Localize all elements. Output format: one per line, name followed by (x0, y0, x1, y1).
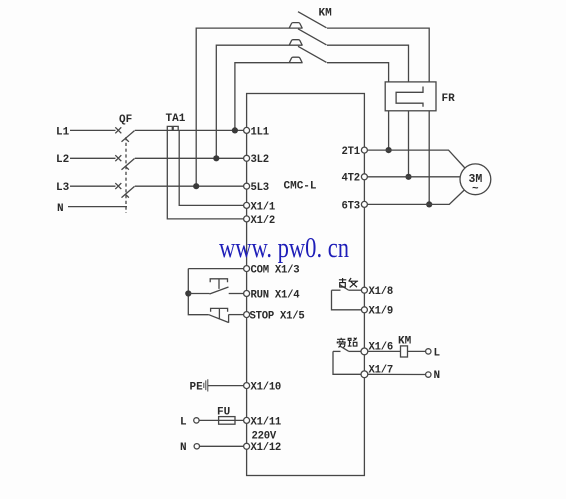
wire L2 incoming (70, 157, 116, 159)
wire KM contact 2 to 4T2 drop (327, 45, 409, 177)
fuse FU (219, 417, 235, 425)
wire KM left drop to 5L3 (196, 28, 302, 186)
breaker QF linkage dashed (125, 137, 127, 213)
svg-text:TA1: TA1 (166, 113, 186, 125)
pushbutton RUN actuator (210, 279, 227, 289)
svg-text:STOP X1/5: STOP X1/5 (250, 311, 305, 323)
terminal X1/12 (244, 443, 250, 449)
wire RUN right stub (229, 293, 244, 295)
svg-text:220V: 220V (252, 430, 277, 442)
contactor coil KM (401, 346, 408, 357)
svg-text:L3: L3 (56, 182, 70, 194)
junction dot 2T1 (386, 147, 392, 153)
svg-text:L1: L1 (56, 126, 70, 138)
svg-text:L: L (180, 416, 187, 428)
wire TA1 secondary to X1/2 (167, 130, 243, 219)
motor 3M circle (460, 164, 491, 195)
wire fault right stub to X1/8 (348, 289, 361, 291)
terminal circle L out (426, 349, 431, 354)
terminal circle N out (426, 372, 431, 377)
wire L1 to 1L1 (135, 129, 244, 131)
terminal 2T1 (361, 147, 367, 153)
svg-text:QF: QF (119, 114, 132, 126)
wire STOP right stub (229, 314, 244, 316)
wire L1 incoming (70, 129, 116, 131)
svg-text:www. pw0. cn: www. pw0. cn (219, 233, 349, 264)
wire bypass loop to X1/7 (333, 351, 361, 374)
svg-text:X1/2: X1/2 (251, 215, 275, 227)
breaker QF pole 1 blade (122, 131, 135, 142)
junction dot L2/KM (213, 155, 219, 161)
junction dot L3/KM (193, 183, 199, 189)
terminal circle N supply (194, 444, 199, 449)
svg-text:RUN X1/4: RUN X1/4 (251, 289, 301, 301)
terminal 6T3 (361, 201, 367, 207)
svg-text:X1/9: X1/9 (369, 306, 393, 318)
svg-text:4T2: 4T2 (342, 173, 360, 185)
svg-text:PE: PE (190, 382, 204, 394)
wire 4T2 to motor (368, 176, 461, 178)
wire fault loop to X1/9 (332, 290, 362, 310)
contactor KM contact 3 fixed arc (289, 57, 302, 63)
breaker QF pole 1 contact cross (115, 127, 121, 133)
terminal X1/9 (361, 307, 367, 313)
wire COM (188, 268, 243, 270)
terminal 5L3 (244, 183, 250, 189)
terminal circle L supply (194, 418, 199, 423)
terminal X1/7 (361, 371, 368, 378)
contactor KM contact 2 blade (298, 29, 327, 45)
svg-text:5L3: 5L3 (251, 182, 269, 194)
wire KM contact 1 to 6T3 drop (327, 28, 429, 204)
contactor KM contact 1 blade (298, 12, 327, 28)
breaker QF pole 2 contact cross (115, 155, 121, 161)
junction dot 4T2 (405, 174, 411, 180)
wire X1/6 to KM coil (368, 350, 401, 352)
breaker QF pole 3 contact cross (115, 183, 121, 189)
wire L3 incoming (70, 185, 116, 187)
terminal X1/1 (244, 202, 250, 208)
svg-text:1L1: 1L1 (251, 126, 269, 138)
contactor KM contact 3 blade (298, 46, 327, 62)
wire RUN left stub (188, 293, 209, 295)
wire KM left drop to 3L2 (216, 45, 302, 158)
svg-text:X1/7: X1/7 (369, 364, 393, 376)
terminal X1/11 (244, 417, 250, 423)
wire bypass right stub to X1/6 (349, 350, 362, 352)
wire TA1 secondary to X1/1 (179, 130, 243, 205)
pushbutton RUN blade (210, 287, 229, 294)
terminal STOP X1/5 (244, 312, 250, 318)
svg-text:N: N (57, 203, 64, 215)
wire start/stop left rail (188, 269, 209, 315)
pushbutton STOP blade (209, 315, 229, 323)
current transformer TA1 (167, 126, 178, 130)
svg-text:~: ~ (472, 184, 479, 196)
terminal X1/8 (361, 287, 367, 293)
breaker QF pole 2 blade (122, 159, 135, 170)
svg-text:KM: KM (398, 336, 412, 348)
wire KM coil to L (408, 350, 426, 352)
wire L3 to 5L3 (135, 185, 244, 187)
earth symbol PE (204, 379, 208, 391)
svg-text:X1/10: X1/10 (251, 382, 282, 394)
bypass contact left stub (333, 350, 341, 352)
terminal X1/6 (361, 348, 368, 355)
pushbutton STOP right contact (228, 315, 230, 323)
svg-text:CMC-L: CMC-L (284, 181, 317, 193)
contactor KM contact 1 fixed arc (289, 23, 302, 29)
terminal 4T2 (361, 174, 367, 180)
svg-text:X1/8: X1/8 (369, 286, 393, 298)
terminal X1/2 (244, 216, 250, 222)
svg-text:X1/6: X1/6 (369, 342, 393, 354)
svg-text:N: N (434, 370, 441, 382)
svg-text:X1/1: X1/1 (251, 201, 275, 213)
junction dot RUN rail (185, 290, 191, 296)
wire X1/7 to N (368, 373, 426, 375)
pushbutton STOP actuator (211, 308, 228, 319)
thermal relay FR box (385, 82, 436, 111)
svg-text:KM: KM (319, 8, 333, 20)
svg-text:COM X1/3: COM X1/3 (251, 265, 300, 277)
wire KM left drop to 1L1 (235, 63, 303, 131)
terminal 3L2 (244, 155, 250, 161)
svg-text:X1/11: X1/11 (251, 416, 282, 428)
CMC-L soft starter box (247, 94, 365, 476)
wire N (68, 206, 127, 208)
wire PE to X1/10 (208, 385, 244, 387)
label fault (Chinese 故障) (339, 278, 358, 287)
svg-text:L2: L2 (56, 154, 69, 166)
wire L to X1/11 (199, 419, 244, 421)
svg-text:6T3: 6T3 (342, 200, 360, 212)
svg-text:2T1: 2T1 (342, 146, 360, 158)
bypass contact blade (340, 346, 349, 351)
svg-text:L: L (434, 347, 441, 359)
contactor KM contact 2 fixed arc (289, 40, 302, 46)
fault contact left stub (332, 289, 341, 291)
label bypass (Chinese 旁路) (337, 338, 357, 348)
svg-text:3L2: 3L2 (251, 154, 269, 166)
fault contact blade (340, 285, 349, 290)
junction dot L1/KM (232, 127, 238, 133)
wire KM contact 3 to 2T1 drop (327, 63, 389, 150)
wire N to X1/12 (200, 445, 244, 447)
svg-text:X1/12: X1/12 (251, 442, 282, 454)
svg-text:FU: FU (217, 407, 230, 419)
thermal relay FR heater element (396, 87, 423, 107)
wire 2T1 to motor (368, 150, 465, 168)
terminal 1L1 (244, 127, 250, 133)
wire L2 to 3L2 (135, 157, 244, 159)
svg-text:FR: FR (442, 93, 456, 105)
breaker QF pole 3 blade (122, 186, 135, 197)
terminal RUN X1/4 (244, 291, 250, 297)
junction dot 6T3 (426, 201, 432, 207)
wire 6T3 to motor (368, 190, 465, 204)
terminal COM X1/3 (244, 266, 250, 272)
terminal X1/10 (244, 383, 250, 389)
svg-text:N: N (180, 442, 187, 454)
